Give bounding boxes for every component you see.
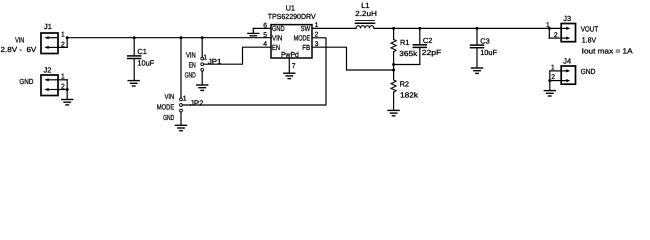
- resistor R2: [391, 80, 396, 92]
- wire U1 pin6 to ground: [253, 27, 271, 29]
- svg-text:Iout max = 1A: Iout max = 1A: [582, 46, 633, 55]
- wire FB net: U1 pin3 to divider: [312, 47, 394, 70]
- svg-text:J1: J1: [44, 22, 52, 31]
- ground J2: [62, 100, 73, 105]
- wire J1 pin2 to rail: [58, 46, 67, 48]
- svg-text:FB: FB: [302, 43, 310, 52]
- svg-text:VIN: VIN: [165, 92, 175, 101]
- wire EN net: JP1 pin2 to U1 pin4: [204, 47, 271, 64]
- svg-text:SW: SW: [301, 24, 311, 33]
- svg-text:1: 1: [183, 95, 187, 102]
- svg-text:VOUT: VOUT: [581, 25, 599, 34]
- svg-text:C2: C2: [423, 36, 432, 45]
- svg-text:R1: R1: [400, 38, 409, 47]
- svg-text:1.8V: 1.8V: [582, 36, 596, 45]
- jumper JP1: [201, 38, 203, 57]
- svg-text:GND: GND: [185, 71, 196, 80]
- connector J2: [41, 75, 58, 96]
- ground U1 pin7: [284, 73, 295, 78]
- ground C1: [128, 81, 139, 86]
- svg-text:22pF: 22pF: [422, 48, 442, 57]
- wire JP2 pin3 to ground: [180, 112, 182, 125]
- svg-text:GND: GND: [19, 77, 33, 86]
- capacitor C3: [476, 27, 479, 30]
- svg-text:C1: C1: [137, 47, 146, 56]
- inductor L1: [356, 26, 374, 29]
- svg-text:EN: EN: [189, 61, 196, 70]
- svg-text:2: 2: [551, 74, 555, 81]
- wire J3 pin2 branch: [548, 27, 551, 30]
- svg-text:2.2uH: 2.2uH: [355, 9, 377, 18]
- svg-text:TPS62290DRV: TPS62290DRV: [268, 12, 316, 21]
- svg-text:GND: GND: [581, 67, 596, 76]
- svg-text:5: 5: [263, 32, 267, 39]
- wire J2 pins join: [58, 79, 67, 81]
- svg-text:VIN: VIN: [272, 34, 282, 43]
- svg-text:182k: 182k: [400, 91, 418, 100]
- svg-text:1: 1: [61, 32, 65, 39]
- wire VIN rail: [67, 37, 271, 39]
- svg-text:2.8V - 6V: 2.8V - 6V: [1, 45, 37, 54]
- svg-text:10uF: 10uF: [137, 59, 154, 68]
- connector J1: [41, 33, 58, 54]
- ground U1 pin6: [248, 33, 259, 35]
- connector J4: [561, 66, 575, 84]
- svg-text:C3: C3: [480, 37, 489, 46]
- capacitor C1: [133, 38, 135, 56]
- svg-text:VIN: VIN: [186, 50, 196, 59]
- ground JP2: [176, 125, 187, 130]
- svg-text:MODE: MODE: [157, 102, 175, 111]
- jumper JP2: [180, 38, 182, 98]
- wire JP1 pin3 to ground: [201, 71, 203, 84]
- svg-text:MODE: MODE: [294, 34, 311, 43]
- node VIN label: [1, 35, 37, 54]
- resistor R1: [392, 27, 395, 30]
- svg-text:J4: J4: [563, 56, 571, 65]
- wire J4 pins to ground: [550, 70, 561, 72]
- svg-text:JP2: JP2: [190, 98, 204, 107]
- ground JP1: [197, 85, 208, 90]
- svg-text:EN: EN: [272, 43, 280, 52]
- svg-text:1: 1: [203, 54, 207, 61]
- svg-text:10uF: 10uF: [480, 48, 497, 57]
- capacitor C2: [418, 27, 421, 30]
- wire SW output rail: [312, 27, 356, 29]
- ground R2: [388, 110, 399, 115]
- op-amp U1 (IC TPS62290DRV): [271, 25, 312, 58]
- wire U1 pin7 (PwPd) to ground: [288, 58, 290, 73]
- node GND label (J2): [19, 77, 33, 86]
- svg-text:4: 4: [263, 41, 267, 48]
- node VOUT labels: [581, 25, 633, 56]
- svg-text:GND: GND: [272, 24, 285, 33]
- svg-text:J2: J2: [44, 66, 52, 75]
- svg-text:GND: GND: [163, 113, 174, 122]
- wire MODE net: JP2 pin2 to U1 pin2: [182, 38, 326, 105]
- svg-text:R2: R2: [400, 80, 409, 89]
- svg-text:J3: J3: [563, 14, 571, 23]
- connector J3: [561, 24, 575, 42]
- svg-text:VIN: VIN: [15, 35, 24, 44]
- ground J4: [544, 91, 555, 96]
- ground C3: [472, 68, 483, 73]
- svg-text:365k: 365k: [399, 49, 417, 58]
- svg-text:2: 2: [315, 32, 319, 39]
- svg-text:7: 7: [292, 63, 296, 70]
